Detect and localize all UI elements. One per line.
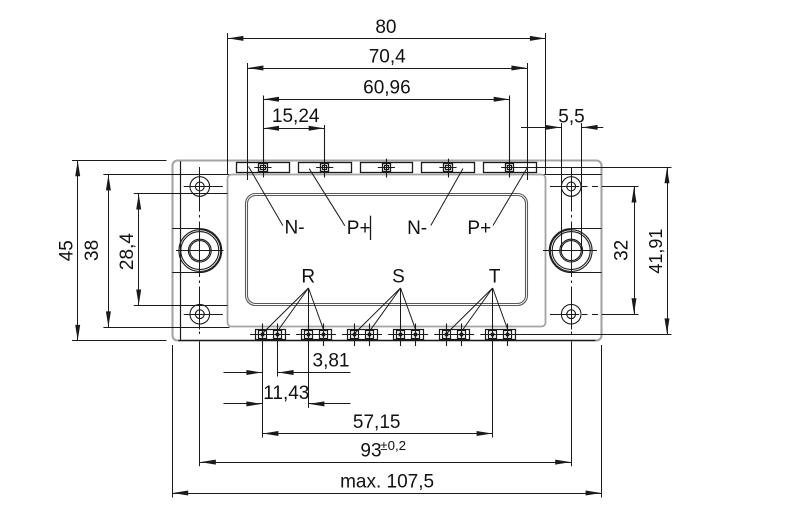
right hole center line vertical — [571, 167, 573, 466]
svg-text:5,5: 5,5 — [558, 106, 584, 127]
svg-text:N-: N- — [407, 218, 427, 239]
bottom pin T1.1 — [443, 324, 451, 347]
bottom pin box R1 — [256, 330, 286, 340]
extension line pin R1.1 — [262, 346, 264, 438]
dimension 57,15 line — [262, 433, 492, 435]
leader P+ left — [309, 169, 345, 226]
left flange bottom line / 38 extension — [103, 327, 229, 329]
terminal slot 1 — [237, 163, 290, 173]
mounting slot left center — [179, 229, 222, 273]
bottom pin box T2 center line — [480, 334, 520, 336]
left flange edge line — [180, 161, 182, 340]
top terminal pin 4 — [439, 159, 456, 178]
dimension 28,4 line — [138, 194, 140, 306]
cursor bar after P+ — [370, 216, 372, 240]
baseplate bottom edge — [178, 340, 595, 342]
dimension 32 extension top — [582, 186, 588, 188]
svg-text:15,24: 15,24 — [272, 106, 320, 127]
svg-text:P+: P+ — [347, 218, 371, 239]
top terminal pin 2 — [316, 125, 333, 178]
terminal slot 3 — [361, 163, 413, 173]
bottom pin box T1 — [440, 330, 470, 340]
svg-text:80: 80 — [375, 17, 396, 38]
bottom pin R2.2 — [320, 324, 328, 347]
svg-text:T: T — [489, 266, 501, 287]
dimension 70,4 line — [247, 68, 527, 70]
bottom pin box R2 center line — [296, 334, 336, 336]
module baseplate outline — [173, 161, 602, 341]
dimension 41,91 extension top — [518, 167, 671, 169]
bottom pin S2.1 — [397, 324, 405, 347]
bottom pin box T2 — [486, 330, 516, 340]
bottom pin S1.2 — [366, 324, 374, 347]
svg-text:70,4: 70,4 — [369, 47, 406, 68]
dimension 15,24 line — [263, 128, 325, 130]
dimension max 107,5 extension left — [172, 345, 174, 498]
svg-text:28,4: 28,4 — [117, 233, 138, 270]
dimension 80 extension right — [545, 33, 547, 175]
svg-text:R: R — [301, 266, 315, 287]
dimension 45 extension bottom — [72, 340, 167, 342]
mounting hole bottom-right — [561, 304, 581, 324]
left hole center line vertical — [199, 167, 201, 466]
bottom pin S2.2 — [412, 324, 420, 347]
bottom pin box S1 center line — [342, 334, 382, 336]
dimension 5,5 extension left — [561, 123, 563, 251]
lid outer outline — [246, 194, 528, 306]
terminal slot 2 — [299, 163, 352, 173]
dimension 38 line — [108, 174, 110, 327]
bottom pin T1.2 — [458, 324, 466, 347]
dimension 93 line — [200, 462, 571, 464]
svg-text:S: S — [392, 266, 405, 287]
leader P+ right — [493, 167, 528, 225]
dimension 80 line — [227, 38, 546, 40]
right flange top line — [544, 174, 602, 176]
left slot opening top — [172, 228, 200, 230]
dimension 41,91 extension bottom — [520, 334, 671, 336]
bottom pin T2.2 — [504, 324, 512, 347]
svg-text:3,81: 3,81 — [313, 351, 350, 372]
bottom pin S1.1 — [351, 324, 359, 347]
svg-text:38: 38 — [82, 240, 103, 261]
left flange step line bottom / 28,4 extension — [134, 305, 228, 307]
dimension 5,5 line — [521, 127, 561, 129]
bottom pin T2.1 — [489, 324, 497, 347]
leader fan R — [262, 288, 323, 408]
top-right hole center line horizontal — [550, 186, 579, 188]
center-left hole center line horizontal — [176, 250, 224, 252]
mounting hole top-left — [190, 177, 210, 197]
dimension 32 extension bottom — [582, 314, 588, 316]
bottom pin R1.1 — [259, 324, 267, 347]
dimension 11,43 line — [224, 403, 263, 405]
left flange step line top / 28,4 extension — [134, 193, 228, 195]
dimension 80 extension left — [227, 33, 229, 175]
left flange top line / 38 extension — [103, 174, 236, 176]
svg-text:±0,2: ±0,2 — [380, 438, 406, 453]
leader fan S — [355, 288, 416, 346]
bottom-right hole center line horizontal — [550, 314, 579, 316]
right slot opening top — [571, 228, 601, 230]
bottom-left hole center line horizontal — [184, 314, 223, 316]
svg-text:11,43: 11,43 — [263, 383, 309, 404]
extension line pin T2.1 — [492, 346, 494, 438]
svg-text:32: 32 — [611, 240, 632, 261]
bottom pin box R1 center line — [250, 334, 290, 336]
right slot opening bottom — [571, 272, 601, 274]
svg-text:93: 93 — [360, 441, 381, 462]
mounting slot right center — [549, 229, 592, 273]
svg-text:57,15: 57,15 — [353, 412, 401, 433]
case body outline — [228, 175, 546, 327]
lid inner outline — [248, 196, 526, 304]
bottom pin box T1 center line — [434, 334, 474, 336]
dimension 32 line — [634, 187, 636, 315]
left slot opening bottom — [172, 272, 200, 274]
dimension 60,96 line — [263, 99, 510, 101]
bottom pin R2.1 — [305, 324, 313, 347]
dimension 45 line — [77, 160, 79, 341]
top-left hole center line horizontal — [184, 186, 223, 188]
bottom pin box S2 center line — [388, 334, 428, 336]
svg-text:41,91: 41,91 — [646, 229, 666, 274]
svg-text:max. 107,5: max. 107,5 — [340, 472, 434, 493]
bottom pin R1.2 — [274, 324, 282, 347]
dimension max 107,5 line — [172, 493, 601, 495]
top terminal pin 5 — [501, 96, 518, 178]
leader N- right — [431, 169, 463, 226]
dimension 3,81 line — [224, 372, 263, 374]
bottom pin box S1 — [348, 330, 378, 340]
top terminal pin 1 — [254, 96, 271, 178]
dimension 45 extension top — [72, 160, 167, 162]
terminal slot 5 — [484, 163, 537, 173]
terminal slot 4 — [422, 163, 475, 173]
bottom pin box S2 — [394, 330, 424, 340]
extension line pin R1.2 — [277, 346, 279, 377]
dimension max 107,5 extension right — [601, 345, 603, 498]
svg-text:45: 45 — [57, 240, 78, 261]
top terminal pin 3 — [378, 159, 395, 178]
dimension 5,5 extension right — [581, 123, 583, 251]
leader fan T — [447, 288, 508, 438]
leader N- left — [249, 167, 283, 226]
svg-text:60,96: 60,96 — [363, 78, 411, 99]
mounting hole bottom-left — [190, 304, 210, 324]
svg-text:P+: P+ — [467, 218, 491, 239]
dimension 70,4 extension left — [247, 63, 249, 180]
bottom pin box R2 — [302, 330, 332, 340]
center-right hole center line horizontal — [543, 250, 597, 252]
svg-text:N-: N- — [284, 218, 304, 239]
dimension 41,91 line — [667, 167, 669, 334]
dimension 70,4 extension right — [527, 63, 529, 180]
mounting hole top-right — [561, 177, 581, 197]
